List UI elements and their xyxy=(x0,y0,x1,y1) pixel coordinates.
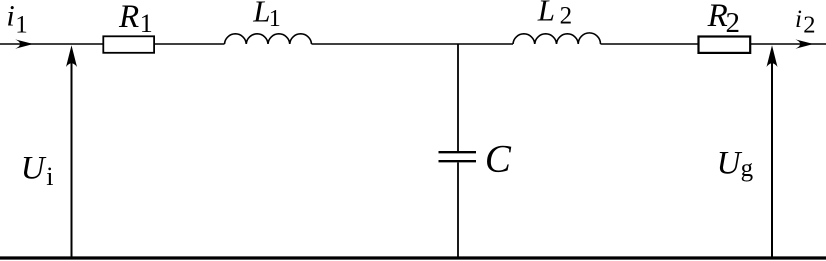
svg-text:1: 1 xyxy=(15,12,28,39)
svg-text:g: g xyxy=(741,155,754,182)
svg-text:i: i xyxy=(6,0,14,32)
svg-text:2: 2 xyxy=(803,11,815,38)
svg-text:1: 1 xyxy=(269,6,281,32)
svg-text:U: U xyxy=(717,146,743,182)
svg-text:2: 2 xyxy=(560,2,573,29)
svg-text:i: i xyxy=(46,162,53,191)
svg-text:i: i xyxy=(795,6,802,33)
svg-text:L: L xyxy=(537,0,555,27)
svg-text:2: 2 xyxy=(726,7,741,39)
svg-text:R: R xyxy=(118,0,139,35)
svg-text:U: U xyxy=(21,150,47,186)
svg-text:1: 1 xyxy=(140,9,153,38)
svg-text:C: C xyxy=(485,138,512,181)
